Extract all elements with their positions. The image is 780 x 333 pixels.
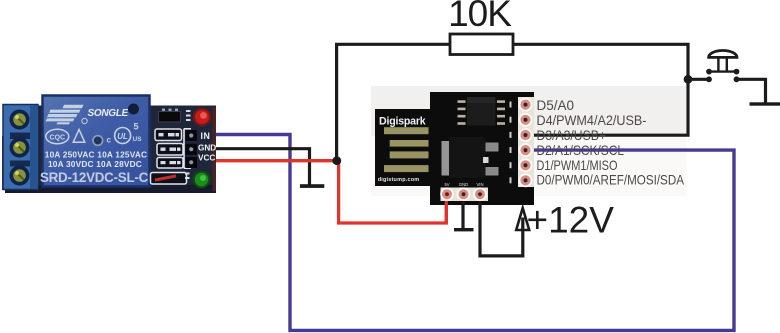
svg-text:D1/PWM1/MISO: D1/PWM1/MISO [537, 158, 618, 173]
component row 3 [157, 158, 183, 169]
resistor R1 10K [448, 0, 513, 55]
svg-text:D3/A3/USB+: D3/A3/USB+ [537, 128, 607, 143]
bottom pin labels 5V GND VIN [444, 182, 483, 187]
svg-text:Digispark: Digispark [379, 115, 426, 127]
svg-text:VCC: VCC [198, 154, 215, 163]
svg-text:UL: UL [117, 132, 128, 141]
svg-text:SONGLE: SONGLE [88, 108, 129, 119]
silkscreen marks near LEDs [185, 110, 191, 179]
Digispark bottom header holes (5V GND VIN) [440, 187, 487, 201]
songle logo stripes [46, 105, 84, 125]
CQC oval logo [46, 129, 69, 144]
usb tab [375, 109, 432, 186]
ground symbol (Digispark GND) [454, 228, 474, 231]
green LED [193, 171, 211, 189]
svg-text:10A 250VAC 10A 125VAC: 10A 250VAC 10A 125VAC [45, 149, 147, 159]
junction node at VCC / resistor [332, 156, 341, 165]
rivet [93, 136, 103, 146]
svg-text:D5/A0: D5/A0 [537, 98, 575, 113]
component row 2 [157, 144, 183, 156]
Digispark right header holes [519, 98, 533, 188]
svg-text:GND: GND [459, 182, 468, 187]
wire: red 5V stub into hole [445, 194, 448, 224]
svg-text:10K: 10K [448, 0, 512, 34]
svg-text:IN: IN [201, 131, 211, 141]
pushbutton S1 [706, 50, 739, 82]
relay K1 (blue cube) [40, 96, 150, 187]
component row 1 [155, 129, 182, 141]
svg-text:+12V: +12V [527, 199, 615, 240]
stub bar (open terminal) [750, 102, 780, 105]
relay transistor Q1 [159, 109, 181, 123]
Digispark board [375, 92, 534, 205]
wire: black GND from relay to ground [213, 149, 310, 185]
usb contact fingers [384, 127, 429, 172]
svg-text:digistump.com: digistump.com [378, 177, 420, 183]
screw 1 [10, 110, 30, 130]
svg-text:CQC: CQC [50, 134, 66, 141]
red band of diode [155, 176, 176, 180]
wire: black from resistor right to button and down to D3 [513, 44, 688, 135]
svg-text:D0/PWM0/AREF/MOSI/SDA: D0/PWM0/AREF/MOSI/SDA [537, 173, 685, 188]
wire: black from resistor left down to VCC junction [337, 44, 450, 160]
triangle cert logo [73, 130, 85, 143]
IC U1 (ATtiny85) [467, 97, 496, 126]
svg-text:US: US [133, 136, 143, 143]
wire: purple loop from relay IN to Digispark D2 [213, 135, 734, 331]
svg-text:5: 5 [134, 122, 139, 132]
red LED [193, 108, 211, 126]
ground symbol (relay GND) [300, 184, 324, 188]
voltage regulator U2 [442, 141, 450, 176]
wire: red VCC from relay to Digispark 5V [213, 161, 446, 223]
relay module PCB [2, 106, 216, 194]
pin number silkscreen marks P5..P0 [510, 102, 512, 184]
relay mounting hole [128, 104, 139, 115]
relay smd components column [151, 129, 187, 184]
wire: black GND down from Digispark [461, 194, 464, 229]
right header strip [518, 97, 534, 187]
relay pin header (IN GND VCC) [184, 129, 197, 169]
+12V arrow head [516, 208, 529, 230]
svg-text:VIN: VIN [477, 182, 484, 187]
junction node at button branch [684, 75, 693, 84]
screw 2 [10, 138, 30, 158]
svg-text:SRD-12VDC-SL-C: SRD-12VDC-SL-C [40, 170, 149, 185]
diode D1 with red band [151, 173, 187, 185]
wire: junction to button left terminal [688, 78, 709, 81]
bottom header strip [441, 188, 489, 202]
photo backdrop of digispark pinout image [371, 86, 686, 136]
svg-text:D4/PWM4/A2/USB-: D4/PWM4/A2/USB- [537, 113, 647, 128]
svg-text:10A 30VDC 10A 28VDC: 10A 30VDC 10A 28VDC [48, 159, 142, 169]
svg-text:GND: GND [198, 143, 216, 152]
svg-text:c: c [107, 136, 112, 145]
wire: black VIN to +12V arrow [480, 194, 523, 256]
wire: button right terminal to stub [737, 79, 766, 104]
screw 3 [10, 166, 30, 186]
relay terminal block [3, 105, 38, 190]
svg-text:5V: 5V [444, 182, 449, 187]
svg-text:D2/A1/SCK/SCL: D2/A1/SCK/SCL [537, 143, 625, 158]
UL logo [115, 128, 131, 144]
